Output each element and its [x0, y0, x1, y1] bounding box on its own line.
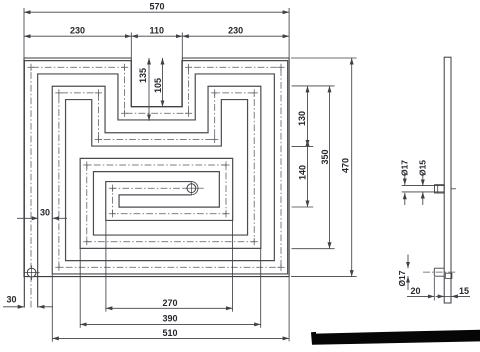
- dim 390: [80, 323, 261, 325]
- svg-text:Ø15: Ø15: [417, 160, 427, 176]
- svg-text:Ø17: Ø17: [397, 270, 407, 286]
- groove end cap at centre: [191, 182, 198, 195]
- svg-text:Ø17: Ø17: [399, 160, 409, 176]
- svg-text:230: 230: [70, 26, 85, 36]
- svg-text:135: 135: [138, 68, 148, 83]
- black redaction bar: [311, 330, 480, 345]
- svg-text:15: 15: [459, 286, 469, 296]
- svg-text:30: 30: [6, 295, 16, 305]
- dim 140: [307, 140, 309, 207]
- bottom cable stub (O17): [434, 268, 444, 276]
- dim 30 left (land): [17, 217, 38, 219]
- dim 470: [351, 58, 353, 277]
- svg-text:570: 570: [149, 2, 164, 12]
- side view plate body: [444, 57, 451, 303]
- centreline corner ticks: [27, 64, 284, 271]
- svg-text:20: 20: [410, 286, 420, 296]
- svg-text:105: 105: [153, 78, 163, 93]
- dim 130: [307, 86, 309, 146]
- top notch 110x105: [131, 58, 182, 107]
- dim 20 / 15: [407, 295, 434, 297]
- svg-text:30: 30: [40, 207, 50, 217]
- bottom-left cable-end hole: [27, 268, 36, 277]
- dim O17 / O15 stems (middle stub): [404, 173, 406, 185]
- dim 30 bottom-left (tail width): [3, 306, 24, 308]
- dim O17 stem (bottom stub): [407, 255, 409, 269]
- svg-text:270: 270: [162, 298, 177, 308]
- dim 230 right: [182, 35, 289, 37]
- extension lines: [24, 8, 357, 342]
- dim 110: [131, 35, 182, 37]
- heating plate channel (groove walls): [31, 67, 281, 307]
- dim 230 left: [24, 35, 131, 37]
- svg-text:510: 510: [162, 328, 177, 338]
- dim 105: [162, 58, 164, 107]
- dim 570: [24, 11, 289, 13]
- dim 510: [52, 337, 289, 339]
- svg-text:140: 140: [297, 165, 307, 180]
- svg-text:130: 130: [297, 111, 307, 126]
- svg-text:350: 350: [320, 149, 330, 164]
- cable centreline (dash-dot): [31, 67, 281, 307]
- svg-text:470: 470: [340, 158, 350, 173]
- middle cable stub (O15): [402, 186, 445, 192]
- svg-text:110: 110: [150, 26, 165, 36]
- dim 270: [106, 307, 233, 309]
- svg-text:230: 230: [228, 26, 243, 36]
- dim 350: [329, 86, 331, 249]
- plate outline 570x470: [24, 58, 289, 277]
- centre cable-end hole: [187, 184, 196, 193]
- middle stub collar (O17): [435, 185, 445, 193]
- svg-text:390: 390: [162, 314, 177, 324]
- dim 135: [148, 58, 150, 121]
